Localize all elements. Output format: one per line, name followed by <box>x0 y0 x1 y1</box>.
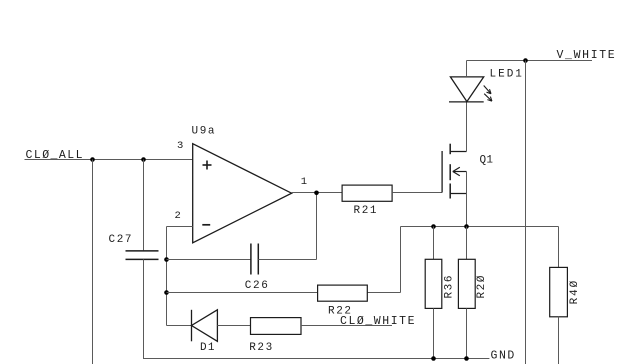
junction GND rail at R20 <box>464 356 469 361</box>
svg-text:R36: R36 <box>443 274 455 299</box>
svg-text:V_WHITE: V_WHITE <box>557 49 617 62</box>
wire V_WHITE horizontal <box>467 60 593 62</box>
svg-text:R4Ø: R4Ø <box>569 279 581 305</box>
wire V_WHITE branch vertical down <box>525 61 527 364</box>
junction pin-2 node upper <box>164 257 169 262</box>
resistor R36 <box>425 259 442 308</box>
svg-text:1: 1 <box>301 176 307 188</box>
wire to R22 left <box>167 292 318 294</box>
svg-text:2: 2 <box>175 210 181 222</box>
resistor R23 <box>251 318 302 335</box>
junction output node <box>314 191 319 196</box>
junction bus at R36 <box>431 224 436 229</box>
resistor R21 <box>342 185 392 201</box>
wire bus vertical up <box>400 227 402 293</box>
junction on CL0_ALL at x=92 <box>90 157 95 162</box>
resistor R22 <box>318 285 368 301</box>
wire D1 to R23 <box>217 325 250 327</box>
wire Q1 source down <box>466 172 468 227</box>
svg-text:R23: R23 <box>249 342 274 354</box>
resistor R20 <box>458 259 475 308</box>
wire R36 bottom to GND rail <box>433 308 435 358</box>
junction pin-2 node lower <box>164 290 169 295</box>
svg-text:GND: GND <box>491 349 516 362</box>
wire Q1 drain up to LED <box>466 102 468 152</box>
wire R21 to Q1 gate <box>392 192 442 194</box>
wire pin-2 node vertical <box>166 227 168 326</box>
wire down to C27 top plate <box>143 160 145 251</box>
diode D1 <box>192 310 218 342</box>
svg-text:D1: D1 <box>200 342 216 354</box>
wire bus horizontal <box>401 226 559 228</box>
junction V_WHITE node <box>523 58 528 63</box>
wire op-amp pin 2 stub <box>167 226 193 228</box>
LED LED1 <box>449 77 492 102</box>
svg-text:R21: R21 <box>354 205 379 217</box>
wire bus to R40 top <box>558 227 560 268</box>
svg-text:CLØ_WHITE: CLØ_WHITE <box>340 315 416 328</box>
svg-text:U9a: U9a <box>192 126 217 138</box>
svg-text:C27: C27 <box>109 234 134 246</box>
wire down to R36 top <box>433 227 435 260</box>
junction GND rail at R36 <box>431 356 436 361</box>
wire R40 bottom down <box>558 317 560 364</box>
wire feedback to C26 left <box>167 259 251 261</box>
transistor Q1 (N-MOSFET) <box>442 144 466 199</box>
junction bus at R20 <box>464 224 469 229</box>
svg-text:3: 3 <box>177 140 183 152</box>
wire op-amp output <box>292 192 343 194</box>
wire left vertical down from CL0_ALL <box>92 160 94 364</box>
wire bottom horizontal to GND <box>143 358 489 360</box>
wire C26 right to output drop <box>258 259 316 261</box>
svg-text:LED1: LED1 <box>490 68 524 80</box>
svg-text:Q1: Q1 <box>480 154 494 166</box>
wire R22 right to bus corner <box>367 292 400 294</box>
wire down to R20 top <box>466 227 468 260</box>
wire LED top to V_WHITE <box>466 61 468 77</box>
wire vertical from output junction down <box>316 193 318 260</box>
resistor R40 <box>550 267 568 316</box>
capacitor C26 <box>251 244 258 275</box>
svg-text:R2Ø: R2Ø <box>476 274 488 299</box>
svg-text:C26: C26 <box>245 280 270 292</box>
wire CL0_ALL horizontal <box>25 159 193 161</box>
wire pin-2 node corner to D1 <box>167 325 192 327</box>
op-amp U9a <box>193 144 292 243</box>
wire down from C27 bottom plate <box>143 259 145 358</box>
wire R20 bottom to GND rail <box>466 308 468 358</box>
wire R23 to CL0_WHITE <box>301 325 392 327</box>
capacitor C27 <box>126 251 159 260</box>
junction on CL0_ALL at x=143 <box>141 157 146 162</box>
